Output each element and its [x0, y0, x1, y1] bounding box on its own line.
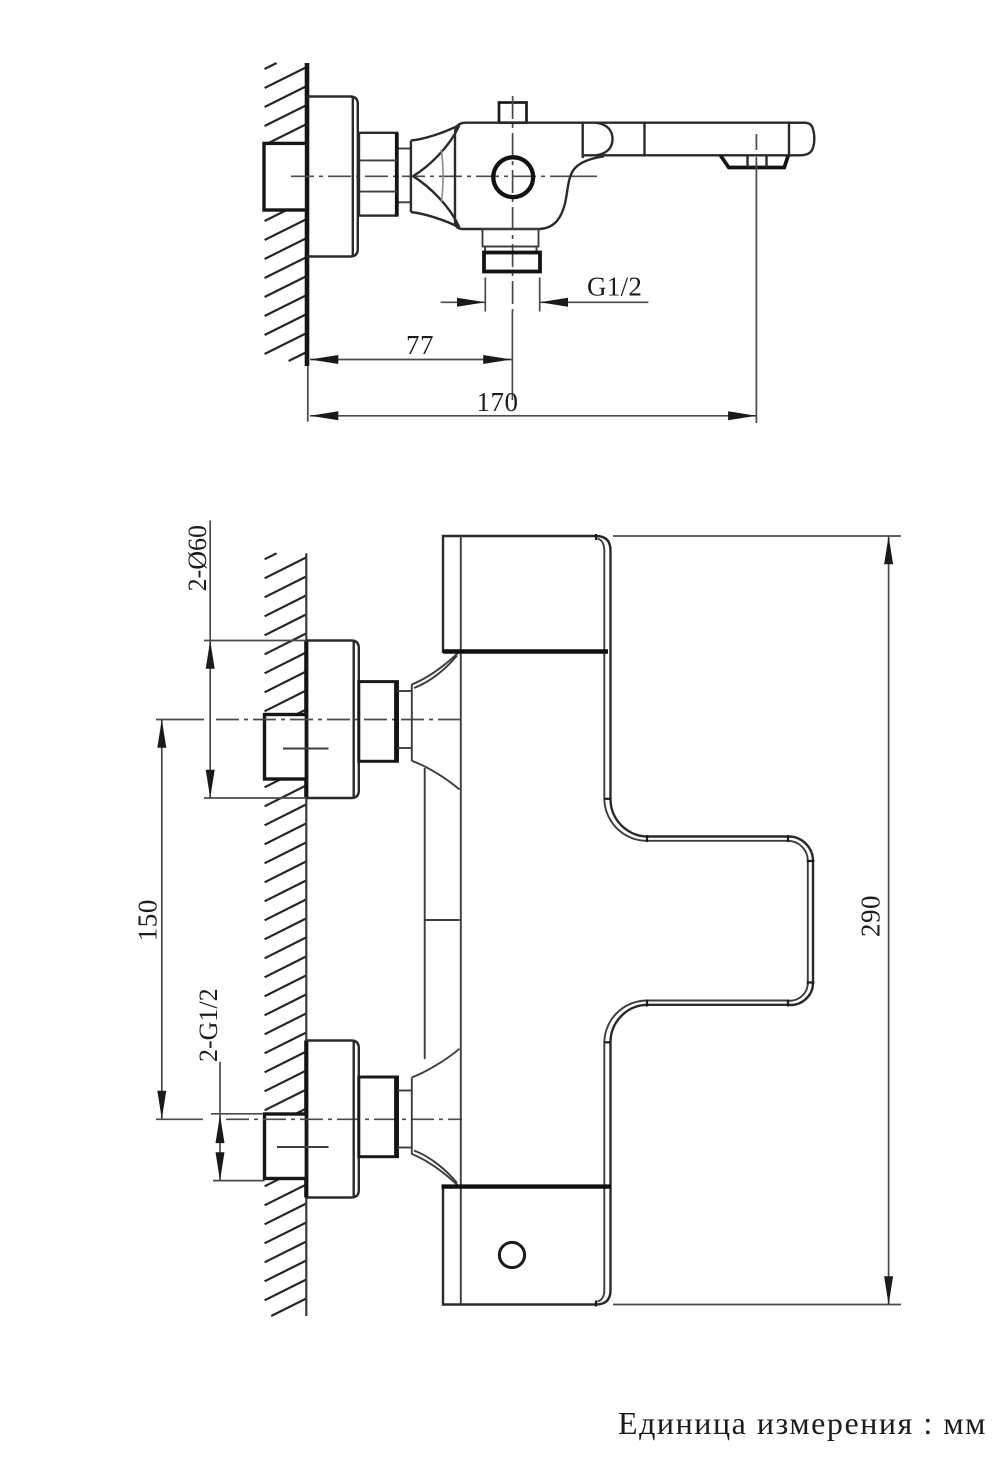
lower inlet block in wall [265, 1114, 307, 1179]
upper mount centerline [156, 719, 204, 721]
upper pipe center tick [283, 748, 329, 750]
aerator nozzle under spout [721, 156, 789, 168]
nozzle centerline / extension [755, 134, 757, 150]
wall surface line (bottom view) [305, 553, 307, 1316]
170 dimension line [310, 415, 756, 417]
wall hatching (bottom view) [265, 553, 307, 1316]
wall extension line down to dimensions [307, 366, 309, 422]
lower pipe center tick [277, 1146, 329, 1148]
svg-text:150: 150 [132, 899, 162, 941]
handle circle on body (top view) [493, 157, 533, 197]
upper inlet block in wall [265, 715, 307, 780]
bracket seam tick [425, 919, 460, 921]
diverter hole circle [499, 1242, 524, 1267]
svg-text:170: 170 [477, 387, 519, 417]
temperature knob (top view) [499, 103, 527, 123]
svg-text:2-Ø60: 2-Ø60 [183, 525, 212, 591]
svg-text:77: 77 [406, 330, 434, 360]
horizontal centerline (top view) [291, 175, 558, 177]
outlet extension line down [511, 311, 513, 400]
lower escutcheon flange [306, 1041, 359, 1198]
vertical centerline through body (top view) [512, 96, 514, 311]
2-G1/2 extension lines [211, 1113, 263, 1115]
svg-text:290: 290 [856, 895, 886, 937]
upper body seam (thick) [443, 649, 608, 653]
150 dimension line [161, 720, 163, 1120]
body inner front-face line [460, 536, 462, 1305]
spout joint bulge [596, 123, 613, 156]
neck (top view) [399, 148, 411, 150]
lower mount centerline [156, 1118, 203, 1120]
290 dimension line [888, 536, 890, 1305]
escutcheon flange (top view) [307, 97, 358, 257]
lower connector nut [359, 1077, 398, 1157]
G1/2 extension lines (top view) [484, 278, 486, 312]
G1/2 dimension arrows [441, 301, 486, 303]
body outline (bottom view) [443, 536, 813, 1305]
2-D60 dimension line [209, 521, 211, 799]
svg-text:G1/2: G1/2 [587, 272, 642, 302]
wall surface line (top view) [305, 63, 310, 366]
lower trumpet flare [412, 1049, 460, 1078]
spout bottom line [583, 154, 789, 156]
faucet body (top view) [455, 123, 604, 229]
body inner silhouette companion (right side) [598, 539, 808, 1302]
upper escutcheon flange [306, 641, 359, 799]
spout end cap [789, 123, 814, 156]
inlet pipe block in wall (top view) [264, 143, 307, 210]
svg-text:Единица измерения : мм: Единица измерения : мм [618, 1405, 987, 1441]
upper connector nut [359, 682, 398, 762]
bracket line between mounts [424, 768, 426, 1059]
290 extension lines [613, 535, 901, 537]
connector nut (top view) [359, 133, 397, 216]
77 dimension line [310, 359, 512, 361]
outlet stack under body (top view) [483, 229, 539, 247]
spout joint seam [582, 123, 584, 158]
spout tube seam [643, 123, 645, 156]
wall hatching (top view) [265, 63, 307, 361]
2-G1/2 dimension line [219, 1062, 221, 1181]
upper trumpet flare [412, 654, 458, 685]
tangent tick marks on handle arcs [596, 534, 815, 1307]
2-D60 extension lines [204, 640, 306, 642]
svg-text:2-G1/2: 2-G1/2 [194, 988, 223, 1062]
lower body seam (thick) [442, 1184, 612, 1188]
trumpet flare (top view) [411, 125, 460, 141]
spout top line (top view) [466, 121, 805, 123]
